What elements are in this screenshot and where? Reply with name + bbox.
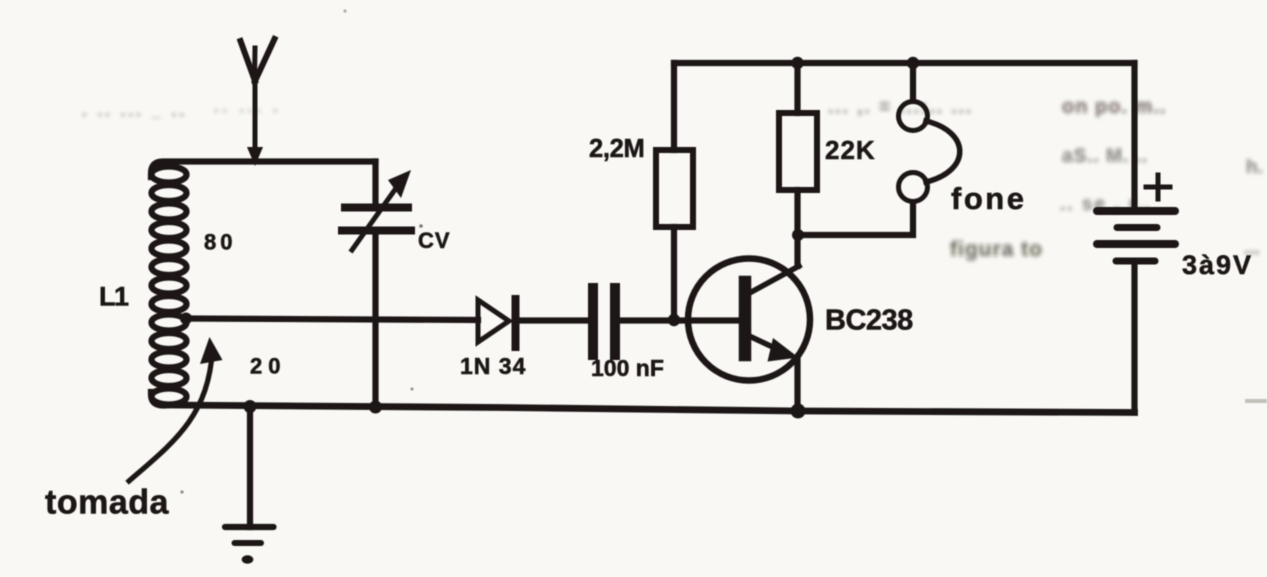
svg-text:.. ... .: .. ... . (214, 99, 282, 116)
svg-text:22K: 22K (825, 135, 876, 165)
svg-text:80: 80 (204, 230, 236, 255)
svg-text:3à9V: 3à9V (1182, 250, 1253, 280)
svg-text:fone: fone (951, 181, 1026, 216)
svg-text:tomada: tomada (45, 484, 170, 522)
svg-text:h.: h. (1246, 157, 1263, 178)
svg-text:CV: CV (418, 228, 451, 253)
svg-text:1N 34: 1N 34 (460, 353, 526, 379)
svg-text:20: 20 (250, 354, 286, 379)
svg-text:L1: L1 (99, 282, 129, 312)
svg-text:BC238: BC238 (825, 305, 913, 337)
svg-text:on po. m..: on po. m.. (1062, 96, 1166, 118)
svg-text:figura to: figura to (950, 238, 1043, 261)
svg-text:2,2M: 2,2M (589, 135, 645, 163)
svg-text:100 nF: 100 nF (591, 355, 664, 381)
svg-text:. .. ... _ ..: . .. ... _ .. (82, 101, 187, 120)
